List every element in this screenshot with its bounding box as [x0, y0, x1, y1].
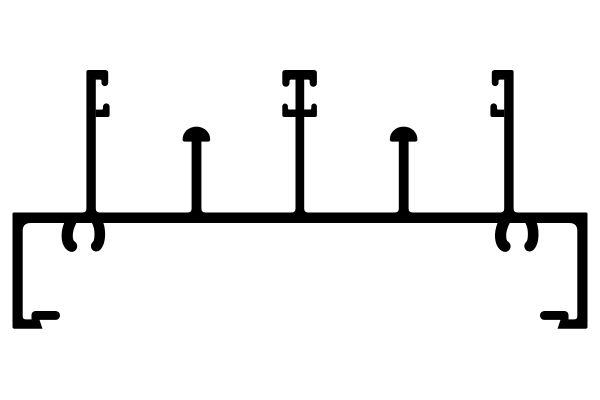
left snap pair thin left arc: [67, 221, 71, 246]
left snap pair fat right arc: [96, 221, 100, 246]
right post stem with top hook cap: [492, 70, 518, 213]
right mushroom dome: [390, 127, 418, 142]
left post lower hook: [96, 103, 110, 117]
main frame: web bar, side walls and feet: [13, 213, 588, 329]
right snap pair fat right arc: [530, 221, 534, 246]
left mushroom dome: [183, 127, 211, 142]
right mushroom stem: [395, 140, 413, 213]
left post stem with top hook cap: [82, 70, 108, 213]
left mushroom stem: [188, 140, 206, 213]
center post top bridge: [282, 70, 317, 87]
right snap pair thin left arc: [501, 221, 505, 246]
center post stem: [292, 70, 309, 213]
center post lower bridge: [282, 104, 317, 118]
right post lower hook: [490, 103, 504, 117]
